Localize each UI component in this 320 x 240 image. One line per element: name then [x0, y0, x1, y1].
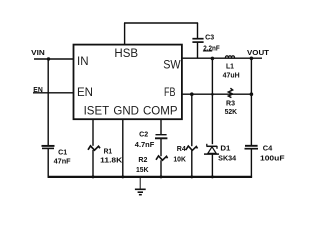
junction dot rail/R2 — [160, 175, 163, 178]
svg-text:VIN: VIN — [31, 50, 45, 57]
svg-text:15K: 15K — [136, 167, 149, 174]
wire ISET column lower — [92, 150, 94, 177]
resistor R2 (zigzag on COMP column) — [156, 156, 168, 160]
wire GND pin column — [122, 119, 124, 177]
wire HSB stub — [124, 23, 126, 45]
svg-text:C3: C3 — [205, 35, 214, 42]
IC U1 body — [74, 45, 182, 120]
wire C3 top drop — [197, 23, 199, 38]
svg-text:C1: C1 — [58, 150, 67, 157]
junction dot VOUT — [250, 57, 254, 61]
wire C1 bottom to rail — [47, 149, 49, 178]
wire VOUT/C4 column upper — [250, 58, 252, 145]
svg-text:10K: 10K — [173, 157, 186, 164]
svg-text:R1: R1 — [104, 148, 113, 155]
svg-text:100uF: 100uF — [260, 155, 285, 162]
ground symbol — [135, 178, 146, 195]
inductor L1 bumps — [225, 56, 234, 58]
junction dot rail/D1 — [211, 175, 214, 178]
svg-text:SK34: SK34 — [218, 156, 236, 163]
svg-text:D1: D1 — [220, 145, 230, 152]
wire D1 column lower — [211, 154, 213, 177]
svg-text:EN: EN — [33, 87, 43, 94]
capacitor C1 plates — [42, 146, 55, 149]
junction dot SW/D1 — [211, 57, 215, 61]
ground rail — [48, 176, 253, 178]
junction dot FB/R4 — [190, 92, 194, 96]
diode D1 (Schottky, cathode up) — [204, 144, 219, 154]
wire VIN to IN pin — [34, 58, 74, 60]
junction dot VIN — [47, 57, 50, 60]
wire HSB top horizontal — [124, 22, 198, 24]
wire SW to VOUT — [181, 57, 262, 59]
svg-text:52K: 52K — [225, 109, 238, 116]
junction dot rail/ISET — [92, 175, 95, 178]
resistor R1 (zigzag on ISET column) — [88, 146, 100, 150]
svg-text:VOUT: VOUT — [247, 50, 270, 57]
wire D1 column upper — [211, 58, 213, 144]
wire EN to EN pin — [33, 92, 74, 94]
svg-text:EN: EN — [77, 87, 93, 99]
capacitor C4 plates — [245, 146, 259, 149]
svg-text:R3: R3 — [226, 100, 235, 107]
capacitor C2 plates — [155, 135, 167, 139]
capacitor C3 plates — [192, 39, 203, 42]
junction dot rail/R4 — [190, 175, 193, 178]
wire C1 column (VIN branch down) — [47, 59, 49, 145]
wire R4 column lower — [191, 150, 193, 177]
svg-text:L1: L1 — [226, 63, 234, 70]
wire R2 to rail — [160, 160, 162, 177]
junction dot FB/D1 crossing — [211, 93, 214, 96]
wire C2 to R2 — [160, 139, 162, 156]
wire C3 bottom to SW wire — [197, 42, 199, 58]
resistor R4 (zigzag on FB divider lower) — [186, 146, 198, 150]
svg-text:4.7nF: 4.7nF — [135, 142, 155, 149]
svg-text:HSB: HSB — [114, 48, 138, 60]
resistor R3 (vertical zigzag inline on FB wire) — [228, 88, 232, 97]
svg-text:C4: C4 — [263, 145, 273, 152]
svg-text:GND: GND — [113, 106, 139, 118]
svg-text:47nF: 47nF — [54, 158, 72, 165]
svg-text:47uH: 47uH — [223, 72, 240, 79]
svg-text:C2: C2 — [139, 132, 148, 139]
wire FB horizontal — [181, 93, 251, 95]
wire R4 column upper — [191, 94, 193, 146]
wire C4 bottom to rail — [250, 149, 252, 178]
svg-text:FB: FB — [164, 87, 176, 99]
svg-text:IN: IN — [77, 56, 89, 68]
junction dot rail/GND — [121, 175, 124, 178]
underline under 2.2 — [203, 50, 212, 52]
svg-text:11.8K: 11.8K — [100, 157, 122, 164]
wire ISET column upper — [92, 119, 94, 146]
svg-text:R2: R2 — [138, 157, 147, 164]
svg-text:R4: R4 — [177, 146, 186, 153]
svg-text:SW: SW — [163, 60, 181, 72]
svg-text:ISET: ISET — [84, 106, 110, 118]
junction dot FB/VOUT column — [250, 92, 254, 96]
wire COMP column upper — [160, 119, 162, 135]
svg-text:COMP: COMP — [143, 106, 178, 118]
